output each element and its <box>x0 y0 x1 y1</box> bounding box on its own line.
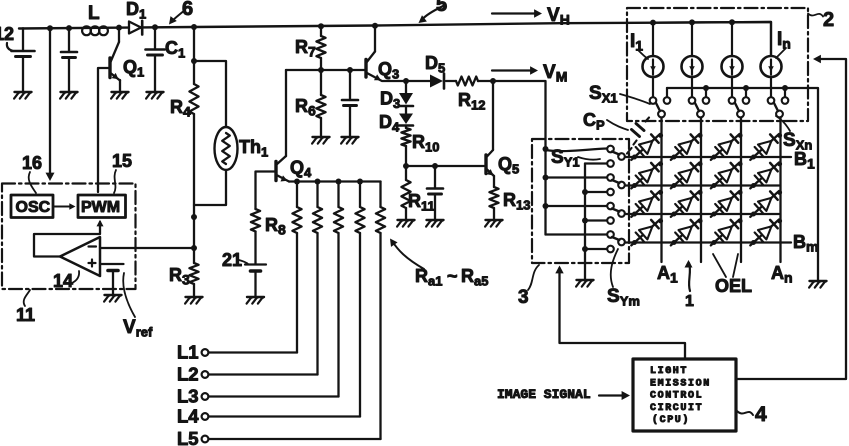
wire junction Q3 collector <box>372 23 378 29</box>
I1 leader <box>638 50 648 59</box>
terminal L3 label <box>177 386 199 407</box>
wire discharge bus <box>667 88 818 280</box>
wire rail into box 2 <box>653 22 771 56</box>
resistor R13 <box>489 187 498 219</box>
svg-text:PWM: PWM <box>81 199 120 216</box>
label 15 leader <box>114 170 116 193</box>
svg-text:OEL: OEL <box>715 276 752 296</box>
label 16 <box>22 153 42 173</box>
OEL element row3 col4 <box>750 190 782 217</box>
terminal L4 <box>202 413 209 420</box>
resistor R10 <box>401 126 410 167</box>
wire op-amp minus input feedback <box>100 247 194 249</box>
IMAGE SIGNAL label <box>497 387 591 402</box>
wire Sy1 tap <box>546 149 608 152</box>
resistor R11 <box>401 166 410 219</box>
box 2 leader <box>808 14 823 17</box>
OEL element row3 col1 <box>631 190 663 217</box>
wire CPU to Y selector <box>555 266 685 360</box>
control block box 11 (dash-dot) <box>2 184 136 290</box>
resistor R7 <box>316 26 325 70</box>
wire junction to OSC line <box>47 25 53 31</box>
node 5 label <box>436 0 447 16</box>
VM net label <box>543 62 567 85</box>
ground Q3 base cap <box>341 137 358 144</box>
switch Sx3 <box>729 78 750 118</box>
resistor R4 <box>189 27 198 217</box>
transistor Q4 label <box>290 158 312 181</box>
svg-text:14: 14 <box>53 271 73 291</box>
capacitor C1 label <box>165 38 185 61</box>
wire junction R4/Th1 bottom <box>191 214 197 220</box>
wire Q1 base to PWM <box>98 68 110 192</box>
terminal L2 <box>202 371 209 378</box>
wire junction R7 top <box>318 23 324 29</box>
svg-text:L5: L5 <box>177 428 199 446</box>
wire Sy3 lower throw <box>585 219 607 221</box>
resistor R8 <box>251 209 260 264</box>
wire terminal L3 line <box>209 395 339 397</box>
terminal L1 <box>202 349 209 356</box>
ground R13 <box>485 220 502 227</box>
diode D3 label <box>380 89 400 112</box>
battery 21 leader <box>239 260 248 264</box>
wire VM to Y selector bus <box>493 81 546 235</box>
svg-text:CIRCUIT: CIRCUIT <box>650 403 703 414</box>
wire Q3 base rail <box>286 69 366 71</box>
wire junction R4 branch <box>191 24 197 30</box>
OEL element row4 col2 <box>671 219 703 246</box>
column A1 label <box>657 263 678 286</box>
resistor R11 label <box>408 191 435 214</box>
OEL element row2 col4 <box>750 162 782 189</box>
Y selector box 3 (dash-dot) <box>532 139 629 263</box>
box 4 leader <box>737 411 753 415</box>
OEL element row4 col4 <box>750 219 782 246</box>
terminal L4 label <box>177 406 199 427</box>
ground input cap left <box>14 92 31 99</box>
node 6 label <box>182 0 193 20</box>
box 3 label <box>518 287 529 308</box>
wire Sy2 tap <box>546 176 608 178</box>
ground R6 <box>312 137 329 144</box>
current source I1 <box>643 23 664 78</box>
wire Sy4 lower throw <box>585 248 607 250</box>
ground R11 <box>397 220 414 227</box>
switch Sy2 <box>607 174 625 195</box>
wire terminal L5 line <box>209 438 381 440</box>
diode D5 <box>430 74 444 89</box>
oscillator block OSC (16) <box>11 195 53 218</box>
wire IMAGE SIGNAL arrow <box>599 391 630 400</box>
transistor Q4 <box>276 70 289 182</box>
resistor R8 label <box>265 215 286 238</box>
battery 21 <box>245 265 266 297</box>
switch Sy1 label <box>551 147 580 170</box>
inductor L <box>82 26 108 35</box>
resistor R3 <box>189 217 198 296</box>
panel 1 label <box>685 293 694 310</box>
wire junction VM node <box>490 78 496 84</box>
transistor Q3 <box>366 26 381 81</box>
switch Sy4 <box>607 231 625 252</box>
wire junction cap top <box>347 67 353 73</box>
resistor R6 label <box>295 96 316 119</box>
svg-text:4: 4 <box>755 403 767 426</box>
wire vertical to control box 11 with arrow <box>46 28 55 181</box>
svg-text:3: 3 <box>518 287 529 308</box>
terminal 12 label <box>0 24 14 44</box>
wire junction C1 <box>152 24 158 30</box>
svg-text:~: ~ <box>447 266 458 286</box>
svg-text:L3: L3 <box>177 386 199 407</box>
wire Sy4 tap <box>546 233 608 235</box>
thermistor Th1 label <box>239 137 268 160</box>
battery Vref leader <box>123 273 135 317</box>
wire junction source I2 tap <box>689 19 695 25</box>
resistor R6 <box>316 70 325 136</box>
wire junction source I3 tap <box>729 19 735 25</box>
transistor Q3 label <box>378 59 399 82</box>
OEL element row4 col1 <box>631 219 663 246</box>
switch Sx1 label <box>589 83 618 106</box>
wire ground bus Y selector <box>584 164 586 280</box>
transistor Q1 label <box>123 57 144 80</box>
ground input cap second <box>60 92 77 99</box>
wire Q5 base <box>406 165 484 167</box>
diode D5 label <box>425 53 445 76</box>
ground battery 21 <box>247 297 264 304</box>
wire row B2 <box>625 184 779 186</box>
light emission control circuit box 4 <box>633 359 736 431</box>
transistor Q5 <box>486 81 494 187</box>
wire terminal L2 line <box>209 373 318 375</box>
op-amp 14 leader <box>72 271 79 283</box>
diode D3 <box>399 81 413 106</box>
svg-text:L: L <box>88 3 100 24</box>
wire column A1 <box>660 118 662 263</box>
node 5 leader arrow <box>419 6 444 23</box>
wire op-amp output to PWM <box>34 220 104 257</box>
ground R3 <box>185 297 202 304</box>
box 4 label <box>755 403 767 426</box>
OEL element row1 col4 <box>750 133 782 160</box>
diode D1 label <box>126 0 146 22</box>
OEL leaders <box>713 254 738 277</box>
wire Sy1 lower throw <box>585 162 607 164</box>
resistor bank Ra1~Ra5 label <box>415 266 488 289</box>
svg-text:L1: L1 <box>177 342 199 363</box>
terminal L3 <box>202 393 209 400</box>
Ra1~Ra5 leader arrow <box>390 239 424 270</box>
switch Sx2 <box>689 78 710 118</box>
wire arrow OSC to PWM <box>53 203 76 210</box>
wire junction source I1 tap <box>650 20 656 26</box>
OEL element row3 col3 <box>711 190 743 217</box>
In leader <box>776 48 786 58</box>
switch Sxn label <box>783 130 812 153</box>
capacitor Cp (panel capacitance) <box>627 118 649 154</box>
svg-text:L4: L4 <box>177 406 199 427</box>
wire junction gnd bus 2 <box>582 189 588 195</box>
op-amp 14 label <box>53 271 73 291</box>
wire top rail (node 6 to VH rail) <box>19 22 771 29</box>
box 3 leader <box>528 265 539 290</box>
wire terminal 12 lead <box>7 43 13 51</box>
current source I3 <box>722 23 743 78</box>
svg-text:IMAGE SIGNAL: IMAGE SIGNAL <box>497 387 591 402</box>
wire junction gnd bus 4 <box>582 246 588 252</box>
Sy1 leader <box>578 157 600 160</box>
svg-text:L2: L2 <box>177 364 199 385</box>
OEL element row1 col2 <box>671 133 703 160</box>
diode D4 <box>399 106 413 126</box>
resistor R13 label <box>503 190 530 213</box>
svg-text:15: 15 <box>112 151 132 171</box>
transistor Q5 label <box>498 154 519 177</box>
capacitor Q5 base <box>427 166 443 219</box>
wire Sy2 lower throw <box>585 191 607 193</box>
svg-text:11: 11 <box>16 305 35 325</box>
wire junction D3 column <box>403 78 409 84</box>
current source I2 <box>682 23 703 78</box>
wire column A2 <box>700 118 702 263</box>
svg-text:CONTROL: CONTROL <box>650 391 703 402</box>
wire CPU to current source box <box>736 55 846 379</box>
resistor R12 label <box>458 90 485 113</box>
pwm block PWM (15) <box>78 195 126 218</box>
block 11 leader <box>24 290 30 306</box>
svg-text:(CPU): (CPU) <box>652 414 690 426</box>
row Bm label <box>793 232 818 255</box>
ground Y selector bus <box>576 280 593 287</box>
switch Sx1 <box>650 78 671 118</box>
capacitor Cp label <box>583 110 605 133</box>
terminal L5 label <box>177 428 199 446</box>
OEL label <box>715 276 752 296</box>
battery 21 label <box>222 250 242 270</box>
resistor Ra2 <box>313 179 322 375</box>
wire junction second cap <box>66 25 72 31</box>
OEL element row1 col3 <box>711 133 743 160</box>
label 16 leader <box>29 172 36 193</box>
svg-text:1: 1 <box>685 293 694 310</box>
ground C1 <box>146 92 163 99</box>
capacitor input C (left) <box>12 28 35 91</box>
switch Sy3 <box>607 203 625 224</box>
svg-text:EMISSION: EMISSION <box>650 379 711 390</box>
wire row B3 <box>625 213 779 215</box>
svg-text:12: 12 <box>0 24 14 44</box>
ground Q5 base cap <box>426 220 443 227</box>
box 2 label <box>823 9 834 31</box>
transistor Q1 <box>110 28 120 91</box>
wire op-amp plus input <box>100 263 102 265</box>
resistor Ra4 <box>355 179 364 417</box>
wire junction Sy1 tap <box>543 146 549 152</box>
Sxn leader <box>776 116 790 131</box>
capacitor at Q3 base <box>342 70 358 136</box>
terminal L2 label <box>177 364 199 385</box>
current source In label <box>777 29 791 52</box>
OEL element row4 col3 <box>711 219 743 246</box>
switch Sy1 <box>607 146 625 167</box>
wire column A3 <box>740 118 742 263</box>
Cp leader <box>607 120 628 130</box>
VH net label <box>547 5 570 28</box>
wire column A4 <box>779 118 781 263</box>
block 11 label <box>16 305 35 325</box>
thermistor Th1 bottom wire <box>194 170 226 205</box>
ground Vref <box>104 295 121 302</box>
OEL element row2 col2 <box>671 162 703 189</box>
wire terminal L4 line <box>209 415 361 417</box>
svg-text:2: 2 <box>823 9 834 31</box>
svg-text:16: 16 <box>22 153 42 173</box>
wire junction filter cap <box>432 163 438 169</box>
switch Sx4 <box>768 78 789 118</box>
wire junction R10 bottom <box>403 163 409 169</box>
inductor L label <box>88 3 100 24</box>
panel 1 arrow <box>685 260 693 291</box>
VM net arrow <box>492 66 538 74</box>
resistor R7 label <box>295 37 316 60</box>
current source In <box>761 23 782 78</box>
wire Sy3 tap <box>546 205 608 207</box>
Sx1 leader <box>620 94 650 104</box>
wire Q4 base <box>256 172 277 210</box>
op-amp U (14) <box>60 237 100 276</box>
terminal L1 label <box>177 342 199 363</box>
current source I1 label <box>630 31 643 54</box>
wire junction Sy3 tap <box>543 203 549 209</box>
resistor R12 <box>446 77 493 86</box>
column An label <box>771 263 793 286</box>
resistor Ra3 <box>334 179 343 397</box>
capacitor input C (second) <box>61 28 77 91</box>
Sym leader <box>611 249 618 287</box>
terminal L5 <box>202 436 209 443</box>
resistor Ra1 <box>292 179 301 353</box>
battery Vref label <box>123 317 153 340</box>
battery Vref <box>103 264 124 294</box>
ground Q1 emitter <box>111 92 128 99</box>
switch Sym label <box>607 286 640 309</box>
resistor R4 label <box>170 97 191 120</box>
OEL element row2 col1 <box>631 162 663 189</box>
thermistor Th1 <box>215 127 238 170</box>
VH net arrow <box>492 9 542 17</box>
resistor Ra5 <box>376 182 385 440</box>
row B1 label <box>794 149 815 172</box>
wire row B1 <box>625 156 791 158</box>
wire row Bm <box>625 241 791 243</box>
resistor R10 label <box>412 132 439 155</box>
node 6 leader arrow <box>169 10 185 25</box>
wire Q4 emitter rail <box>289 180 381 182</box>
wire junction Sy2 tap <box>543 175 549 181</box>
svg-text:OSC: OSC <box>16 199 51 216</box>
capacitor C1 <box>146 27 165 91</box>
OEL element row2 col3 <box>711 162 743 189</box>
wire junction feedback node <box>191 245 197 251</box>
label 15 <box>112 151 132 171</box>
wire junction R6 top <box>318 67 324 73</box>
OEL element row3 col2 <box>671 190 703 217</box>
wire junction Q1 collector <box>116 25 122 31</box>
thermistor Th1 branch wire <box>191 58 226 127</box>
wire Q3 emitter to D5 <box>382 80 430 82</box>
diode D4 label <box>379 112 400 135</box>
diode D1 <box>129 21 142 35</box>
ground discharge bus <box>809 281 826 288</box>
wire junction gnd bus 3 <box>582 218 588 224</box>
resistor R3 label <box>169 265 190 288</box>
current source box 2 (dash-dot) <box>627 8 808 121</box>
wire terminal L1 line <box>209 351 298 353</box>
OEL element row1 col1 <box>631 133 663 160</box>
svg-text:LIGHT: LIGHT <box>650 366 688 377</box>
